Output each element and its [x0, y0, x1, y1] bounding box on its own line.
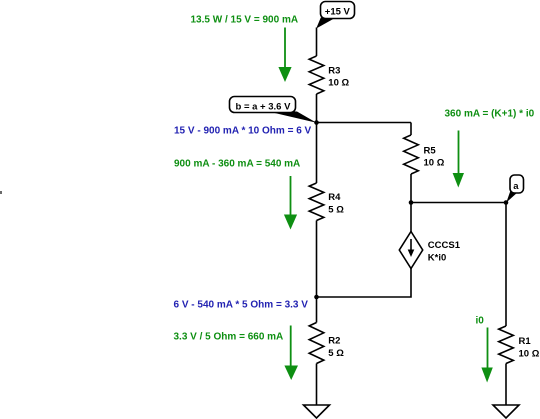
- junction node 3.3V: [314, 295, 319, 300]
- resistor R3: [309, 56, 324, 94]
- svg-text:R4: R4: [328, 192, 341, 203]
- svg-text:a: a: [513, 181, 519, 192]
- current arrow (900 mA into R3): [284, 28, 286, 69]
- svg-text:10 Ω: 10 Ω: [424, 158, 445, 169]
- +15 V supply callout: [316, 18, 335, 29]
- svg-text:15 V - 900 mA * 10 Ohm = 6 V: 15 V - 900 mA * 10 Ohm = 6 V: [174, 126, 312, 137]
- wire R1 bottom to ground: [505, 364, 507, 406]
- wire CCCS1 bottom to node 3.3V: [317, 269, 412, 298]
- current source CCCS1 (diamond): [399, 232, 422, 269]
- svg-text:R2: R2: [328, 336, 340, 347]
- node label b = a + 3.6 V callout: [264, 111, 317, 123]
- resistor R5: [404, 135, 419, 174]
- current arrow (540 mA into R4): [290, 176, 292, 215]
- resistor R2: [309, 323, 324, 364]
- wire R4 bottom to node 3.3V: [316, 221, 318, 298]
- junction node b: [314, 120, 319, 125]
- wire node b down to R4: [316, 123, 318, 184]
- CCCS1 internal arrow: [410, 239, 412, 251]
- svg-text:R3: R3: [328, 66, 340, 77]
- current arrow (660 mA into R2): [290, 326, 292, 367]
- svg-text:b = a + 3.6 V: b = a + 3.6 V: [236, 102, 292, 113]
- junction node a: [504, 200, 509, 205]
- svg-text:13.5 W / 15 V = 900 mA: 13.5 W / 15 V = 900 mA: [191, 15, 299, 26]
- stray mark at left edge: [0, 191, 2, 194]
- resistor R4: [309, 183, 324, 221]
- svg-text:R5: R5: [424, 146, 437, 157]
- wire node down to CCCS1: [410, 203, 412, 232]
- svg-text:R1: R1: [519, 336, 532, 347]
- current arrow (i0 into R1): [487, 328, 489, 369]
- wire top node to R5: [410, 123, 412, 136]
- wire node 3.3V down to R2: [316, 297, 318, 323]
- svg-text:K*i0: K*i0: [428, 253, 446, 264]
- svg-text:360 mA = (K+1) * i0: 360 mA = (K+1) * i0: [445, 109, 535, 120]
- svg-text:10 Ω: 10 Ω: [519, 349, 540, 360]
- node label a callout: [506, 191, 518, 203]
- svg-text:6 V - 540 mA * 5 Ohm = 3.3 V: 6 V - 540 mA * 5 Ohm = 3.3 V: [174, 300, 309, 311]
- current arrow (360 mA): [458, 131, 460, 174]
- wire R2 bottom to ground: [316, 364, 318, 406]
- ground (left branch): [304, 405, 330, 418]
- svg-text:5 Ω: 5 Ω: [328, 348, 344, 359]
- wire node to node a (horizontal): [411, 202, 506, 204]
- svg-text:900 mA - 360 mA = 540 mA: 900 mA - 360 mA = 540 mA: [174, 159, 300, 170]
- svg-text:+15 V: +15 V: [325, 7, 351, 18]
- svg-text:3.3 V / 5 Ohm = 660 mA: 3.3 V / 5 Ohm = 660 mA: [174, 332, 284, 343]
- svg-text:10 Ω: 10 Ω: [328, 78, 349, 89]
- svg-text:i0: i0: [476, 316, 485, 327]
- svg-text:CCCS1: CCCS1: [428, 240, 461, 251]
- svg-text:5 Ω: 5 Ω: [328, 205, 344, 216]
- wire R3 bottom to node b: [316, 94, 318, 123]
- junction node below R5: [409, 200, 414, 205]
- resistor R1: [499, 326, 514, 364]
- wire node a down to R1: [505, 203, 507, 327]
- wire R5 bottom to node: [410, 174, 412, 203]
- ground (right branch): [493, 405, 519, 418]
- wire from +15V source down to R3: [316, 28, 318, 57]
- wire node b to R5 branch (horizontal): [317, 122, 412, 124]
